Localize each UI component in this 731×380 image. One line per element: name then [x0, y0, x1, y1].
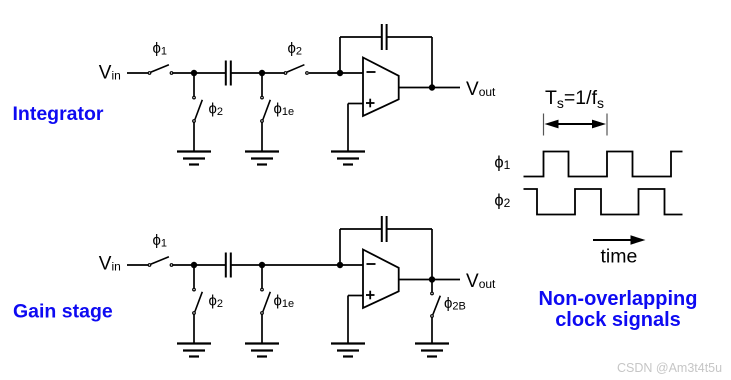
op-amp U1 (int): [363, 58, 399, 117]
node V_in label (gain): [99, 254, 121, 275]
label phi1 (clock): [494, 154, 510, 173]
wire op-amp output: [399, 279, 460, 281]
wire S3 to ground: [193, 314, 195, 343]
label Ts=1/fs: [545, 87, 604, 111]
wire node A down: [193, 265, 195, 288]
label phi1e: [274, 101, 295, 119]
wire plus input: [348, 295, 363, 297]
label Integrator: [13, 103, 104, 125]
svg-text:Ts=1/fs: Ts=1/fs: [545, 87, 604, 111]
switch S1 phi1 (int): [148, 65, 173, 75]
label phi2 (clock): [494, 192, 510, 211]
waveform phi2: [524, 189, 683, 215]
wire plus input down: [347, 296, 349, 344]
wire feedback left (up): [339, 229, 341, 265]
wire node B down: [261, 265, 263, 288]
ground G3 (op-amp +): [331, 344, 365, 357]
ground G4 (phi2B): [415, 344, 449, 357]
ground G1: [177, 344, 211, 357]
wire C1 to S2: [232, 72, 285, 74]
wire Vin to S1: [127, 264, 148, 266]
op-amp inverting input marker: [367, 263, 376, 265]
wire feedback top-right: [388, 36, 433, 38]
label phi2B: [444, 295, 466, 313]
node V_in label (int): [99, 63, 121, 84]
op-amp non-inverting input marker: [366, 99, 375, 108]
waveform phi1: [524, 152, 683, 177]
wire C1 to op-amp: [232, 264, 364, 266]
label phi2 (branch): [209, 293, 224, 311]
label phi2 (branch): [209, 101, 224, 119]
node A: [191, 262, 197, 268]
label phi1: [153, 232, 168, 250]
wire node A down: [193, 73, 195, 96]
wire S2 to op-amp: [309, 72, 363, 74]
switch S1 phi1 (gain): [148, 257, 173, 267]
switch S4 phi1e (to ground): [261, 96, 271, 122]
label Gain stage: [13, 301, 113, 323]
tick mark right (Ts): [606, 114, 608, 136]
wire op-amp output: [399, 87, 460, 89]
wire node B down: [261, 73, 263, 96]
wire plus input: [348, 103, 363, 105]
capacitor C1 (int): [226, 61, 231, 86]
svg-text:time: time: [601, 246, 638, 268]
node V_out label (gain): [466, 271, 496, 292]
wire feedback top-right: [388, 228, 433, 230]
svg-text:Gain stage: Gain stage: [13, 301, 113, 323]
op-amp non-inverting input marker: [366, 291, 375, 300]
op-amp U1 (gain): [363, 250, 399, 309]
arrow time axis: [593, 235, 646, 244]
svg-text:Integrator: Integrator: [13, 103, 104, 125]
label Non-overlapping clock signals: [539, 288, 698, 331]
label phi1: [153, 40, 168, 58]
switch S4 phi1e (to ground): [261, 288, 271, 314]
ground G2: [245, 152, 279, 165]
capacitor C2 feedback (gain): [382, 216, 387, 242]
wire feedback top-left: [340, 228, 381, 230]
wire S5 to ground: [431, 317, 433, 343]
node B: [259, 262, 265, 268]
switch S5 phi2B (to ground): [431, 292, 441, 317]
wire S4 to ground: [261, 314, 263, 343]
wire Vin to S1: [127, 72, 148, 74]
wire S1 to C1: [173, 264, 225, 266]
wire feedback right (down): [431, 37, 433, 88]
wire S4 to ground: [261, 122, 263, 151]
switch S3 phi2 (to ground): [193, 288, 203, 314]
capacitor C2 feedback (int): [382, 24, 387, 50]
svg-text:Non-overlapping: Non-overlapping: [539, 288, 698, 310]
node C (summing junction): [337, 70, 343, 76]
switch S2 phi2 (series): [284, 65, 308, 75]
wire feedback top-left: [340, 36, 381, 38]
svg-text:clock signals: clock signals: [555, 309, 681, 331]
watermark CSDN @Am3t4t5u: [617, 361, 722, 375]
node C (summing junction): [337, 262, 343, 268]
wire node D to S5: [431, 280, 433, 293]
node D (output): [429, 276, 435, 282]
label phi2 (series): [288, 40, 303, 58]
wire S3 to ground: [193, 122, 195, 151]
arrow Ts double-headed: [545, 120, 607, 129]
svg-text:CSDN @Am3t4t5u: CSDN @Am3t4t5u: [617, 361, 722, 375]
ground G1: [177, 152, 211, 165]
wire feedback right (down): [431, 229, 433, 280]
label phi1e: [274, 293, 295, 311]
node D (output): [429, 84, 435, 90]
tick mark left (Ts): [543, 114, 545, 136]
op-amp inverting input marker: [367, 71, 376, 73]
ground G3 (op-amp +): [331, 152, 365, 165]
label time: [601, 246, 638, 268]
wire S1 to C1: [173, 72, 225, 74]
wire plus input down: [347, 104, 349, 152]
switch S3 phi2 (to ground): [193, 96, 203, 122]
ground G2: [245, 344, 279, 357]
node V_out label (int): [466, 79, 496, 100]
capacitor C1 (gain): [226, 253, 231, 278]
node A: [191, 70, 197, 76]
wire feedback left (up): [339, 37, 341, 73]
node B: [259, 70, 265, 76]
